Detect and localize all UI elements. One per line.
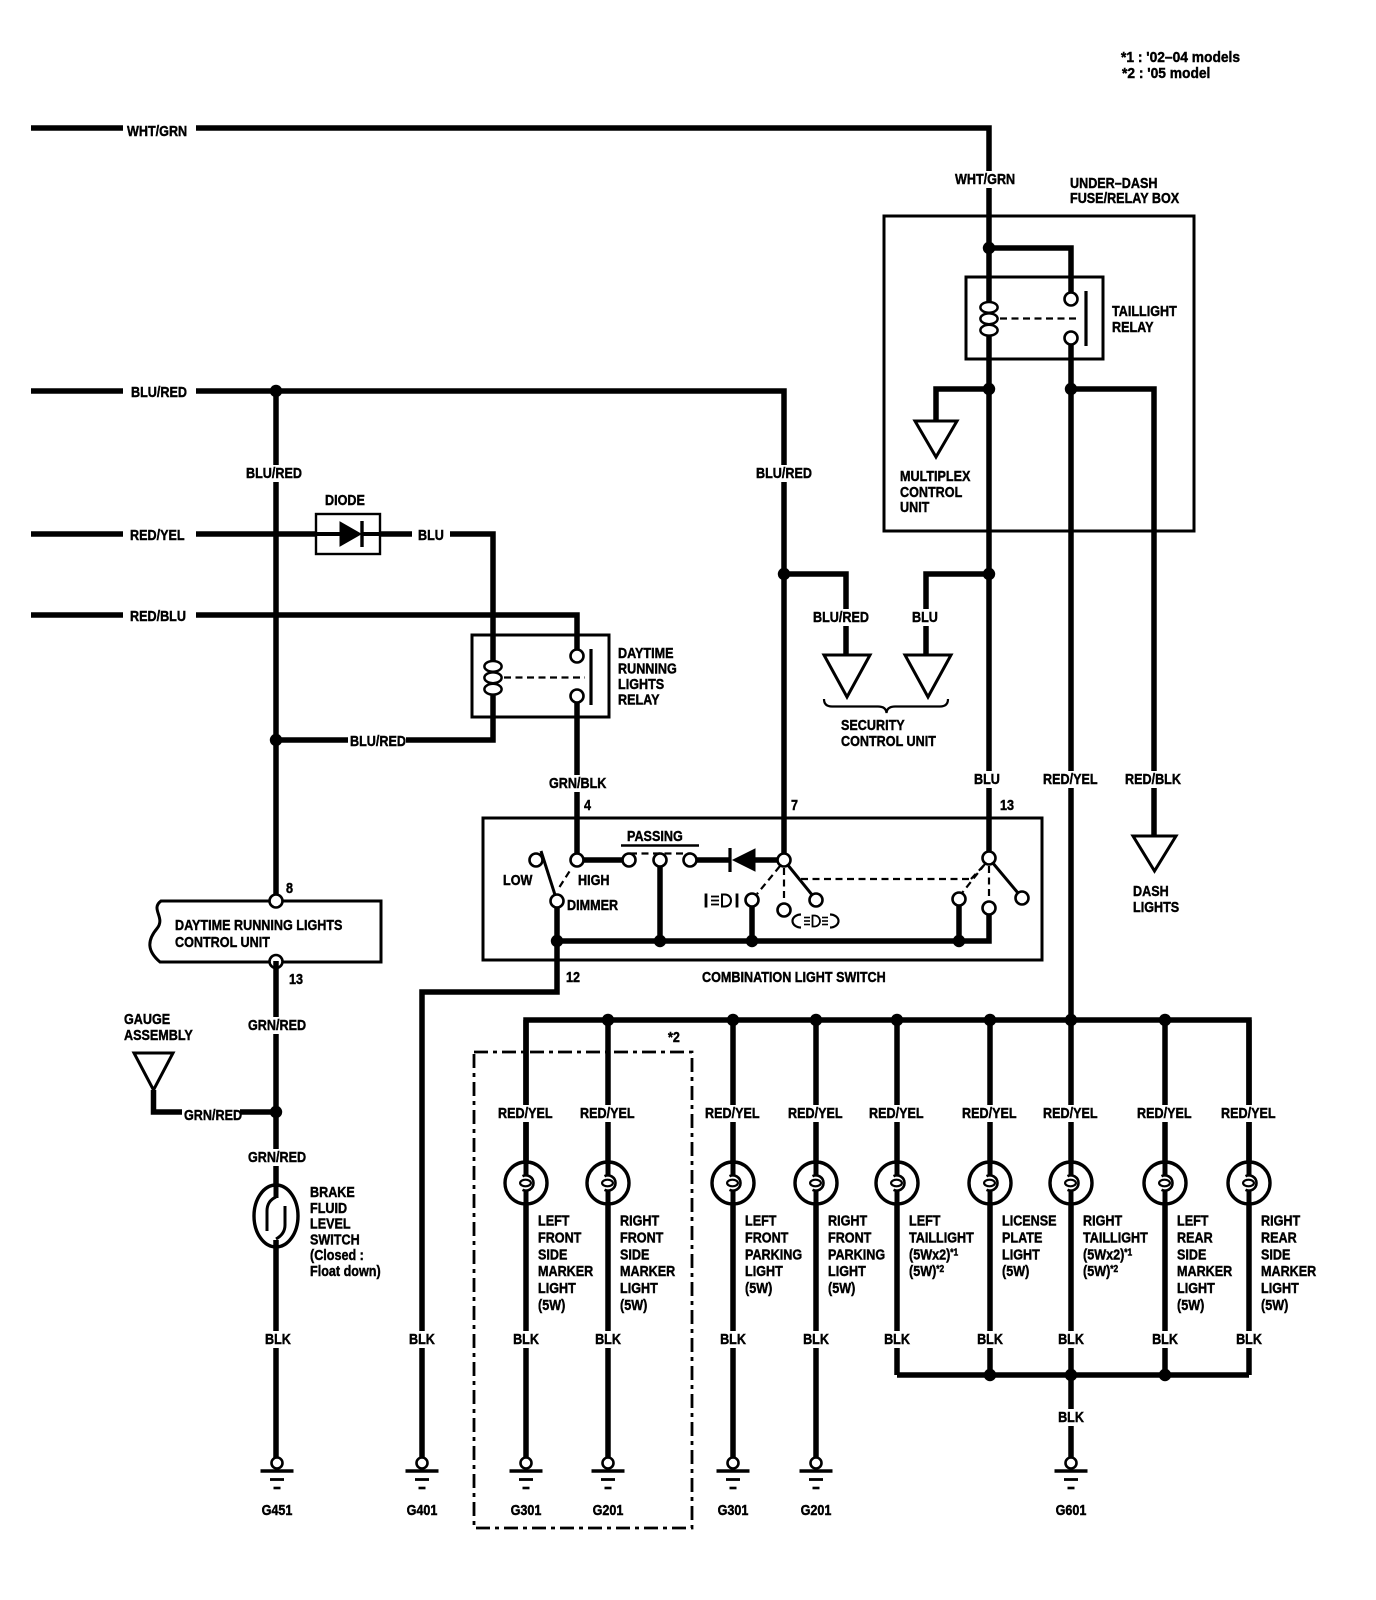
svg-text:G201: G201: [801, 1501, 832, 1518]
wire WHT/GRN feed (left stub): [31, 125, 123, 131]
label BLK (left taillight): [882, 1330, 912, 1348]
label RED/YEL (right front side marker light): [578, 1104, 636, 1122]
svg-text:(5W): (5W): [1177, 1296, 1204, 1313]
svg-text:BRAKE: BRAKE: [310, 1183, 355, 1200]
label RED/YEL: [130, 526, 185, 543]
junction: [778, 568, 790, 580]
bulb right front side marker light: [587, 1162, 629, 1204]
wire BLK to ground G601: [1068, 1375, 1074, 1458]
headlight blade dashed throws: [757, 866, 784, 901]
wire RED/BLU feed (left stub): [31, 612, 123, 618]
svg-text:RED/YEL: RED/YEL: [130, 526, 185, 543]
wire RED/YEL to diode: [196, 531, 316, 537]
label RED/BLK: [1123, 770, 1181, 788]
svg-text:BLK: BLK: [513, 1330, 539, 1347]
under-dash fuse/relay box: [884, 216, 1194, 531]
label LEFT FRONT SIDE MARKER LIGHT: [538, 1211, 593, 1313]
label RED/YEL (right rear side marker light): [1219, 1104, 1277, 1122]
label BLU (relay coil output): [972, 770, 1000, 788]
wire GRN/RED: [273, 961, 279, 1185]
rear lamp ground bus: [897, 1372, 1249, 1378]
svg-text:G301: G301: [718, 1501, 749, 1518]
label RED/YEL (left rear side marker light): [1135, 1104, 1193, 1122]
ground G401: [406, 1458, 439, 1489]
wire relay contact feed: [989, 248, 1071, 299]
label BLK (right rear side marker light): [1234, 1330, 1264, 1348]
svg-text:G601: G601: [1056, 1501, 1087, 1518]
label LEFT FRONT PARKING LIGHT: [745, 1211, 802, 1296]
svg-text:LIGHT: LIGHT: [1177, 1279, 1215, 1296]
internal bus wire: [557, 901, 989, 941]
label MULTIPLEX CONTROL UNIT: [900, 467, 971, 515]
svg-text:RIGHT: RIGHT: [1261, 1211, 1301, 1228]
svg-text:RED/YEL: RED/YEL: [498, 1104, 553, 1121]
wire BLU branch to security unit: [926, 574, 989, 655]
wire passing contact to internal bus: [657, 860, 663, 941]
svg-text:RED/YEL: RED/YEL: [705, 1104, 760, 1121]
svg-text:MULTIPLEX: MULTIPLEX: [900, 467, 971, 484]
svg-text:LEFT: LEFT: [1177, 1211, 1209, 1228]
svg-text:BLK: BLK: [720, 1330, 746, 1347]
label RED/YEL (left taillight): [867, 1104, 925, 1122]
svg-text:PARKING: PARKING: [828, 1245, 885, 1262]
wire lamp column left taillight: [894, 1020, 900, 1375]
wire to multiplex control unit: [936, 389, 989, 421]
svg-text:COMBINATION LIGHT SWITCH: COMBINATION LIGHT SWITCH: [702, 968, 886, 985]
pin number 4: [584, 796, 591, 813]
svg-text:(Closed :: (Closed :: [310, 1246, 364, 1263]
label RIGHT REAR SIDE MARKER LIGHT: [1261, 1211, 1316, 1313]
wire lamp column left front parking light: [730, 1020, 736, 1458]
svg-text:GRN/RED: GRN/RED: [248, 1148, 306, 1165]
ground G301 (left front side marker light): [510, 1458, 543, 1489]
daytime running lights relay U2: [472, 635, 609, 717]
label DIMMER: [567, 896, 618, 913]
wire contact to internal bus: [956, 899, 962, 941]
svg-text:PLATE: PLATE: [1002, 1228, 1042, 1245]
label RIGHT FRONT PARKING LIGHT: [828, 1211, 885, 1296]
svg-text:BLK: BLK: [884, 1330, 910, 1347]
svg-text:RED/YEL: RED/YEL: [788, 1104, 843, 1121]
svg-text:MARKER: MARKER: [620, 1262, 675, 1279]
wire relay output RED/YEL: [1068, 338, 1074, 1162]
wire parking contact to internal bus: [749, 900, 755, 941]
diode D1: [316, 514, 380, 554]
svg-text:RED/YEL: RED/YEL: [869, 1104, 924, 1121]
svg-text:LIGHT: LIGHT: [620, 1279, 658, 1296]
wire BLU diode output: [380, 534, 493, 661]
wire BLU/RED feed (left stub): [31, 388, 123, 394]
svg-text:(5W): (5W): [1002, 1262, 1029, 1279]
svg-text:BLK: BLK: [1058, 1330, 1084, 1347]
svg-text:DASH: DASH: [1133, 882, 1169, 899]
label BLK (right front parking light): [801, 1330, 831, 1348]
ground G201 (right front parking light): [800, 1458, 833, 1489]
wire gauge assembly to junction: [154, 1090, 277, 1112]
label BLK (left rear side marker light): [1150, 1330, 1180, 1348]
svg-text:(5W): (5W): [1261, 1296, 1288, 1313]
svg-text:PASSING: PASSING: [627, 827, 683, 844]
svg-text:SIDE: SIDE: [1261, 1245, 1290, 1262]
svg-text:BLK: BLK: [977, 1330, 1003, 1347]
svg-text:CONTROL UNIT: CONTROL UNIT: [841, 732, 936, 749]
svg-text:LICENSE: LICENSE: [1002, 1211, 1057, 1228]
note *1/*2 model years: [1121, 50, 1240, 83]
wire BLK to ground G451: [273, 1240, 279, 1458]
svg-text:4: 4: [584, 796, 591, 813]
wire BLU/RED down to DRL control unit: [273, 391, 279, 901]
wire lamp column left rear side marker light: [1162, 1020, 1168, 1375]
svg-text:GAUGE: GAUGE: [124, 1010, 170, 1027]
combination light switch box: [483, 818, 1042, 960]
svg-text:MARKER: MARKER: [1177, 1262, 1232, 1279]
dashed passing link bar: [630, 852, 691, 854]
ground G601: [1055, 1458, 1088, 1489]
low-beam icon: [706, 894, 737, 908]
taillight blade dashed throws: [962, 864, 989, 899]
label GRN/BLK: [547, 774, 606, 792]
svg-text:REAR: REAR: [1261, 1228, 1297, 1245]
wire RED/BLU to DRL relay contact: [196, 615, 577, 656]
wire lamp column right front side marker light: [605, 1020, 611, 1458]
svg-text:8: 8: [286, 879, 293, 896]
label BLK (right taillight): [1056, 1330, 1086, 1348]
brace under security terminals: [824, 699, 948, 713]
svg-text:RIGHT: RIGHT: [828, 1211, 868, 1228]
wire passing to diode: [690, 857, 729, 863]
svg-text:7: 7: [791, 796, 798, 813]
label RIGHT TAILLIGHT: [1083, 1211, 1148, 1279]
svg-text:FRONT: FRONT: [745, 1228, 789, 1245]
label RIGHT FRONT SIDE MARKER LIGHT: [620, 1211, 675, 1313]
svg-text:BLU/RED: BLU/RED: [756, 464, 812, 481]
svg-text:BLU: BLU: [974, 770, 1000, 787]
pin 8 terminal: [270, 895, 283, 908]
bulb right taillight: [1050, 1162, 1092, 1204]
dimmer blade dashed throw: [560, 869, 572, 887]
label DASH LIGHTS: [1133, 882, 1179, 915]
svg-text:LIGHTS: LIGHTS: [1133, 898, 1179, 915]
label *2: [668, 1028, 680, 1045]
ground bus junctions: [984, 1369, 1171, 1381]
wire lamp column right taillight: [1068, 1204, 1074, 1375]
dash-dot box (*2 option): [474, 1052, 692, 1528]
svg-text:RED/YEL: RED/YEL: [962, 1104, 1017, 1121]
svg-text:BLK: BLK: [803, 1330, 829, 1347]
svg-text:WHT/GRN: WHT/GRN: [955, 170, 1015, 187]
wire BLU/RED branch to security unit: [784, 574, 846, 655]
wire DRL relay coil to BLU/RED junction: [276, 695, 493, 740]
svg-text:RED/YEL: RED/YEL: [1043, 770, 1098, 787]
junction: [983, 383, 995, 395]
svg-text:G201: G201: [593, 1501, 624, 1518]
svg-text:Float down): Float down): [310, 1262, 381, 1279]
diode D2 (in switch): [730, 848, 755, 872]
label BLU/RED (x276): [244, 464, 302, 482]
gauge assembly terminal triangle: [134, 1053, 173, 1090]
wire lamp column left front side marker light: [523, 1020, 529, 1458]
label BLK: [263, 1330, 291, 1348]
wire lamp column right rear side marker light: [1246, 1020, 1252, 1375]
wire GRN/BLK relay output to switch pin 4: [574, 696, 580, 860]
svg-text:LEFT: LEFT: [745, 1211, 777, 1228]
svg-text:DAYTIME RUNNING LIGHTS: DAYTIME RUNNING LIGHTS: [175, 916, 342, 933]
label BLK (license plate light): [975, 1330, 1005, 1348]
label RED/BLU: [130, 607, 186, 624]
label LOW: [503, 871, 533, 888]
wire BLU/RED to combination switch pin 7: [196, 391, 784, 860]
svg-text:FUSE/RELAY BOX: FUSE/RELAY BOX: [1070, 189, 1180, 206]
svg-text:SIDE: SIDE: [1177, 1245, 1206, 1262]
bulb left rear side marker light: [1144, 1162, 1186, 1204]
svg-text:BLK: BLK: [1152, 1330, 1178, 1347]
pin number 12: [566, 968, 580, 985]
security unit terminal triangle 2: [905, 655, 951, 697]
ground G451: [261, 1458, 294, 1489]
svg-text:UNIT: UNIT: [900, 498, 930, 515]
label BLU/RED (branch): [811, 608, 869, 626]
svg-text:*1 : '02–04 models: *1 : '02–04 models: [1121, 50, 1240, 67]
svg-text:FLUID: FLUID: [310, 1199, 347, 1216]
svg-text:12: 12: [566, 968, 580, 985]
svg-text:SIDE: SIDE: [538, 1245, 567, 1262]
junction: [270, 734, 282, 746]
svg-text:HIGH: HIGH: [578, 871, 609, 888]
label DAYTIME RUNNING LIGHTS CONTROL UNIT: [175, 916, 342, 950]
wire pin 12 to ground G401: [422, 941, 557, 1458]
svg-text:G451: G451: [262, 1501, 293, 1518]
svg-text:BLK: BLK: [265, 1330, 291, 1347]
label PASSING: [621, 827, 699, 846]
junction: [983, 568, 995, 580]
taillight relay U1: [966, 277, 1103, 359]
svg-text:REAR: REAR: [1177, 1228, 1213, 1245]
svg-text:BLK: BLK: [595, 1330, 621, 1347]
label SECURITY CONTROL UNIT: [841, 716, 936, 749]
label LICENSE PLATE LIGHT: [1002, 1211, 1057, 1279]
svg-text:BLU/RED: BLU/RED: [350, 732, 406, 749]
svg-text:(5W): (5W): [745, 1279, 772, 1296]
svg-text:SECURITY: SECURITY: [841, 716, 905, 733]
svg-text:RED/BLK: RED/BLK: [1125, 770, 1181, 787]
svg-text:DIMMER: DIMMER: [567, 896, 618, 913]
svg-text:BLU: BLU: [418, 526, 444, 543]
label LEFT REAR SIDE MARKER LIGHT: [1177, 1211, 1232, 1313]
svg-text:(5W): (5W): [828, 1279, 855, 1296]
svg-text:BLK: BLK: [1236, 1330, 1262, 1347]
svg-text:GRN/RED: GRN/RED: [248, 1016, 306, 1033]
svg-text:WHT/GRN: WHT/GRN: [127, 122, 187, 139]
label BLK (left front parking light): [718, 1330, 748, 1348]
dash lights terminal triangle: [1133, 836, 1176, 871]
pin number 13: [289, 970, 303, 987]
svg-text:RED/YEL: RED/YEL: [1137, 1104, 1192, 1121]
svg-text:FRONT: FRONT: [828, 1228, 872, 1245]
svg-text:GRN/BLK: GRN/BLK: [549, 774, 606, 791]
label HIGH: [578, 871, 609, 888]
switch contact circles: [530, 852, 1029, 917]
svg-text:LOW: LOW: [503, 871, 533, 888]
wire HIGH contact to passing contact: [577, 857, 629, 863]
svg-text:LEVEL: LEVEL: [310, 1215, 351, 1232]
wire lamp column right front parking light: [813, 1020, 819, 1458]
label GRN/RED: [246, 1016, 306, 1034]
svg-text:LEFT: LEFT: [909, 1211, 941, 1228]
svg-text:BLU: BLU: [912, 608, 938, 625]
svg-text:G401: G401: [407, 1501, 438, 1518]
daytime running lights control unit box: [150, 901, 381, 962]
svg-text:RED/YEL: RED/YEL: [1221, 1104, 1276, 1121]
svg-text:FRONT: FRONT: [620, 1228, 664, 1245]
label UNDER-DASH FUSE/RELAY BOX: [1070, 174, 1180, 206]
label BLU (branch): [910, 608, 938, 626]
svg-text:RIGHT: RIGHT: [1083, 1211, 1123, 1228]
svg-text:BLU/RED: BLU/RED: [813, 608, 869, 625]
label BLU/RED (horizontal): [348, 732, 406, 750]
junction: [1065, 383, 1077, 395]
svg-text:RED/BLU: RED/BLU: [130, 607, 186, 624]
bulb left front side marker light: [505, 1162, 547, 1204]
mechanical link dashed: [801, 863, 986, 879]
lamp feed bus: [526, 1020, 1249, 1162]
label RED/YEL (left front side marker light): [496, 1104, 554, 1122]
junction BLU/RED branch: [270, 385, 282, 397]
label WHT/GRN (vertical): [953, 170, 1019, 188]
bulb left taillight: [876, 1162, 918, 1204]
label BLU/RED: [131, 383, 187, 400]
svg-text:TAILLIGHT: TAILLIGHT: [1112, 302, 1177, 319]
svg-text:RELAY: RELAY: [1112, 318, 1154, 335]
label GRN/RED (gauge branch): [182, 1106, 242, 1124]
svg-text:DIODE: DIODE: [325, 491, 365, 508]
svg-text:BLU/RED: BLU/RED: [131, 383, 187, 400]
label BLK (right front side marker light): [593, 1330, 623, 1348]
headlight switch blade (pin 7): [787, 864, 813, 896]
relay contact circles: [1065, 293, 1078, 345]
svg-text:LIGHT: LIGHT: [538, 1279, 576, 1296]
svg-text:CONTROL UNIT: CONTROL UNIT: [175, 933, 270, 950]
svg-text:RELAY: RELAY: [618, 690, 660, 707]
pin number 7: [791, 796, 798, 813]
svg-text:*2: *2: [668, 1028, 680, 1045]
svg-text:GRN/RED: GRN/RED: [184, 1106, 242, 1123]
svg-text:(5W): (5W): [620, 1296, 647, 1313]
bulb left front parking light: [712, 1162, 754, 1204]
multiplex control unit terminal triangle: [915, 421, 957, 457]
internal bus junctions: [551, 935, 965, 947]
bus junctions: [602, 1014, 1171, 1026]
svg-text:ASSEMBLY: ASSEMBLY: [124, 1026, 194, 1043]
svg-text:(5W): (5W): [538, 1296, 565, 1313]
svg-text:*2 : '05 model: *2 : '05 model: [1122, 66, 1210, 83]
label BLU: [418, 526, 444, 543]
svg-text:TAILLIGHT: TAILLIGHT: [909, 1228, 974, 1245]
svg-text:LIGHT: LIGHT: [1002, 1245, 1040, 1262]
DRL relay contact circles: [571, 650, 584, 703]
junction at WHT/GRN branch: [983, 242, 995, 254]
label BLK (left front side marker light): [511, 1330, 541, 1348]
label BLU/RED (x756): [754, 464, 812, 482]
brake fluid level switch S1: [254, 1185, 298, 1247]
svg-text:LIGHT: LIGHT: [1261, 1279, 1299, 1296]
label DIODE: [325, 491, 365, 508]
svg-text:LIGHT: LIGHT: [745, 1262, 783, 1279]
svg-text:PARKING: PARKING: [745, 1245, 802, 1262]
bulb right rear side marker light: [1228, 1162, 1270, 1204]
security unit terminal triangle 1: [824, 655, 870, 697]
svg-text:RIGHT: RIGHT: [620, 1211, 660, 1228]
svg-text:MARKER: MARKER: [1261, 1262, 1316, 1279]
svg-text:SIDE: SIDE: [620, 1245, 649, 1262]
svg-text:BLK: BLK: [409, 1330, 435, 1347]
label BRAKE FLUID LEVEL SWITCH: [310, 1183, 381, 1279]
label DAYTIME RUNNING LIGHTS RELAY: [618, 644, 677, 708]
label RED/YEL (right front parking light): [786, 1104, 844, 1122]
dimmer switch blade: [541, 851, 556, 898]
svg-text:LEFT: LEFT: [538, 1211, 570, 1228]
high-beam icon: [793, 915, 839, 928]
label RED/YEL (license plate light): [960, 1104, 1018, 1122]
wire RED/BLK branch: [1071, 389, 1154, 836]
svg-text:G301: G301: [511, 1501, 542, 1518]
svg-text:BLK: BLK: [1058, 1408, 1084, 1425]
ground G201 (right front side marker light): [592, 1458, 625, 1489]
label BLK (G401 wire): [407, 1330, 435, 1348]
pin number 13: [1000, 796, 1014, 813]
svg-text:SWITCH: SWITCH: [310, 1230, 360, 1247]
svg-text:TAILLIGHT: TAILLIGHT: [1083, 1228, 1148, 1245]
svg-text:13: 13: [1000, 796, 1014, 813]
wire relay output (coil side) BLU: [986, 336, 992, 858]
svg-text:RED/YEL: RED/YEL: [1043, 1104, 1098, 1121]
label RED/YEL (left front parking light): [703, 1104, 761, 1122]
svg-text:13: 13: [289, 970, 303, 987]
label GAUGE ASSEMBLY: [124, 1010, 194, 1043]
svg-text:MARKER: MARKER: [538, 1262, 593, 1279]
taillight switch blade (pin 13): [992, 862, 1018, 893]
bulb license plate light: [969, 1162, 1011, 1204]
pin 13 terminal: [270, 955, 283, 968]
svg-text:FRONT: FRONT: [538, 1228, 582, 1245]
junction: [270, 1106, 282, 1118]
bulb right front parking light: [795, 1162, 837, 1204]
wire lamp column license plate light: [987, 1020, 993, 1375]
svg-text:RED/YEL: RED/YEL: [580, 1104, 635, 1121]
svg-text:LIGHT: LIGHT: [828, 1262, 866, 1279]
wire WHT/GRN to under-dash box: [196, 128, 989, 303]
wire diode to pin 7 contact: [755, 857, 784, 863]
label WHT/GRN: [127, 122, 187, 139]
pin number 8: [286, 879, 293, 896]
label GRN/RED (lower): [246, 1148, 306, 1166]
label BLK (G601): [1056, 1408, 1086, 1426]
label TAILLIGHT RELAY: [1112, 302, 1177, 335]
label LEFT TAILLIGHT: [909, 1211, 974, 1279]
ground G301 (left front parking light): [717, 1458, 750, 1489]
wire RED/YEL feed (left stub): [31, 531, 123, 537]
svg-text:BLU/RED: BLU/RED: [246, 464, 302, 481]
label RED/YEL (right taillight): [1041, 1104, 1099, 1122]
label RED/YEL (relay output): [1041, 770, 1099, 788]
label COMBINATION LIGHT SWITCH: [702, 968, 886, 985]
